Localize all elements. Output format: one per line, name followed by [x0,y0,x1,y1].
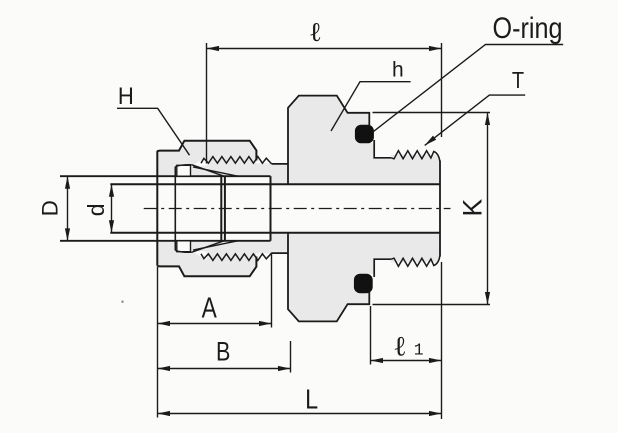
dimension right extension line (l, l1, L) [441,43,443,137]
nut outline [157,141,256,266]
svg-text:L: L [305,385,318,415]
O-ring top [355,125,374,144]
tube OD line bottom [60,240,271,242]
gray silhouette of fitting (nut + body) [157,96,440,322]
svg-text:O-ring: O-ring [493,11,563,45]
leader H [117,108,190,155]
back ferrule notch bottom [177,241,191,252]
d dimension line [111,184,113,232]
dimension l extension left [206,43,208,164]
svg-text:T: T [512,67,524,94]
A extension right [271,253,273,328]
K dimension line [487,113,489,305]
counterbore shoulder [270,176,272,241]
leader T [425,95,526,145]
svg-text:h: h [392,59,404,82]
svg-text:D: D [38,200,63,216]
A dimension line [158,323,272,325]
white pocket at front ferrule nose top [193,157,207,167]
bore line top [110,183,440,185]
ferrule bottom connector [175,250,192,252]
front ferrule taper top B [193,167,239,177]
male thread zigzag bottom right [391,256,440,267]
tube end wall 1 [220,176,222,241]
body hex outline bottom [288,233,369,322]
l1 dimension line [371,360,442,362]
svg-text:ℓ: ℓ [309,17,322,47]
D dimension line [67,176,69,241]
male thread zigzag top right [391,151,440,162]
svg-text:H: H [118,82,134,109]
white through-bore interior [271,184,441,232]
body shank bottom line [272,252,288,254]
centerline [144,208,451,210]
nut-side thread zigzag bottom [201,253,272,260]
B extension right [290,341,292,373]
svg-text:ℓ: ℓ [393,332,406,363]
front ferrule taper bottom B [193,241,239,251]
tube end wall 2 [224,176,226,241]
svg-text:B: B [216,337,230,367]
dimension l line [207,48,442,50]
body shank top line [272,163,288,165]
svg-text:1: 1 [414,340,424,359]
tube OD line top [60,175,271,177]
L dimension line [158,413,442,415]
left extension line for A B L [157,267,159,418]
arrowheads [207,46,220,51]
ferrule top connector [175,165,192,167]
l1 extension left [370,306,372,365]
white pocket at front ferrule nose bottom [193,250,207,260]
bore line bottom [110,232,440,234]
back ferrule notch top [177,165,191,176]
K extension top [373,112,491,114]
svg-text:d: d [83,203,109,216]
front ferrule taper bottom A [192,241,224,252]
leader O-ring [374,45,564,132]
O-ring bottom [354,274,373,294]
nut-side thread zigzag top [201,157,272,164]
ferrule inner wall [174,167,176,251]
leader h [331,82,411,131]
K extension bottom [373,304,491,306]
svg-text:A: A [202,293,218,324]
white tube/counterbore interior [157,176,270,241]
O-ring groove lower wall bottom [374,259,391,277]
front ferrule taper top A [192,165,224,176]
T leader arrowhead [423,136,436,148]
right end face [439,161,441,257]
svg-text:K: K [458,199,488,217]
scan speck [122,301,124,303]
O-ring groove lower wall top [374,140,391,158]
B dimension line [158,368,291,370]
body hex outline top [288,96,369,185]
